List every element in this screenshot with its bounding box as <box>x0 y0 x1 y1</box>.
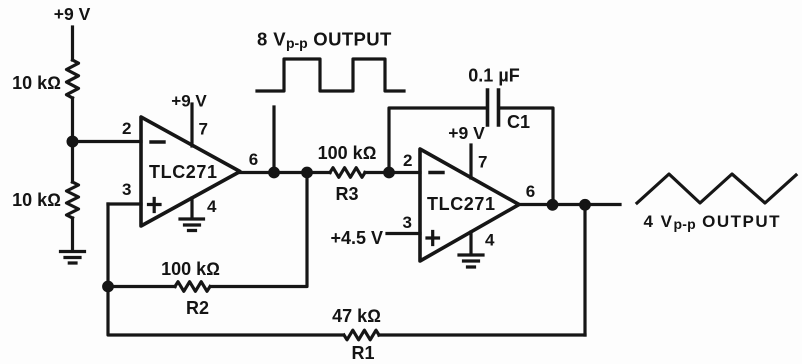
op-amp U2 minus sign <box>430 171 443 174</box>
wire output rail 1 <box>240 171 420 174</box>
ground U2 pin4 <box>459 255 483 267</box>
wire U2 pin7 <box>469 145 472 178</box>
svg-text:R1: R1 <box>351 343 374 363</box>
svg-text:3: 3 <box>403 213 412 232</box>
svg-text:10 kΩ: 10 kΩ <box>12 190 61 210</box>
svg-text:+4.5 V: +4.5 V <box>330 228 383 248</box>
svg-text:+9 V: +9 V <box>171 92 207 111</box>
capacitor C1 plates <box>488 90 499 125</box>
op-amp U2 plus sign <box>427 232 439 245</box>
wire U1 pin3 input <box>108 202 141 205</box>
svg-text:R3: R3 <box>335 184 358 204</box>
resistor R1 zigzag <box>344 330 379 340</box>
wire R1 feedback bottom left <box>108 204 342 335</box>
wire R2 right <box>211 173 307 287</box>
resistor R2 zigzag <box>175 282 210 292</box>
svg-text:TLC271: TLC271 <box>427 194 496 214</box>
square wave symbol <box>257 59 404 91</box>
svg-text:6: 6 <box>526 182 535 201</box>
wire to square wave symbol <box>272 107 275 173</box>
op-amp U1 plus sign <box>149 199 161 212</box>
wire left rail mid <box>71 98 74 182</box>
svg-text:8 Vp-p OUTPUT: 8 Vp-p OUTPUT <box>257 29 392 52</box>
op-amp U1 TLC271 <box>141 117 240 226</box>
wire left rail bottom <box>71 218 74 251</box>
svg-text:0.1 µF: 0.1 µF <box>468 66 519 86</box>
wire left rail top <box>71 27 74 60</box>
svg-text:7: 7 <box>478 153 487 172</box>
svg-text:4 Vp-p OUTPUT: 4 Vp-p OUTPUT <box>644 212 782 232</box>
wire R2 left <box>108 285 175 288</box>
svg-text:2: 2 <box>403 151 412 170</box>
wire C1 feedback right leg <box>500 108 553 205</box>
resistor R3 zigzag <box>330 168 365 178</box>
op-amp U2 TLC271 <box>420 149 519 261</box>
node R2 tap dot <box>301 167 313 179</box>
svg-text:10 kΩ: 10 kΩ <box>12 73 61 93</box>
svg-text:+9 V: +9 V <box>448 123 485 143</box>
node R2 left dot <box>102 281 114 293</box>
svg-text:4: 4 <box>485 231 495 250</box>
svg-text:C1: C1 <box>507 112 530 132</box>
svg-text:7: 7 <box>199 120 208 139</box>
wire node to op1 pin2 <box>73 140 142 143</box>
wire U1 pin7 <box>190 104 193 146</box>
node U2 pin2 dot <box>383 167 395 179</box>
wire output rail 2 <box>519 203 620 206</box>
svg-text:TLC271: TLC271 <box>149 162 218 182</box>
svg-text:6: 6 <box>249 150 258 169</box>
svg-text:R2: R2 <box>186 298 209 318</box>
wire R1 feedback bottom right <box>379 333 585 336</box>
node output1 dot <box>268 167 280 179</box>
svg-text:3: 3 <box>122 180 131 199</box>
svg-text:2: 2 <box>122 119 131 138</box>
node C1 return dot <box>547 199 559 211</box>
ground U1 pin4 <box>180 219 204 231</box>
resistor RA top 10k <box>67 60 79 98</box>
node R1 tap dot <box>579 199 591 211</box>
svg-text:+9 V: +9 V <box>54 4 91 24</box>
wire U1 pin4 ground stem <box>190 198 193 218</box>
wire R1 feedback right leg <box>583 205 586 336</box>
wire C1 feedback left leg <box>389 108 486 173</box>
svg-text:4: 4 <box>207 197 217 216</box>
op-amp U1 minus sign <box>151 140 164 143</box>
node A junction dot <box>67 136 79 148</box>
wire U2 pin3 input <box>387 232 420 235</box>
svg-text:47 kΩ: 47 kΩ <box>332 306 381 326</box>
wire U2 pin4 ground stem <box>469 232 472 254</box>
svg-text:100 kΩ: 100 kΩ <box>318 143 377 163</box>
ground left rail <box>61 252 85 264</box>
svg-text:100 kΩ: 100 kΩ <box>161 259 220 279</box>
resistor RB bottom 10k <box>67 182 79 218</box>
triangle wave symbol <box>637 174 796 203</box>
